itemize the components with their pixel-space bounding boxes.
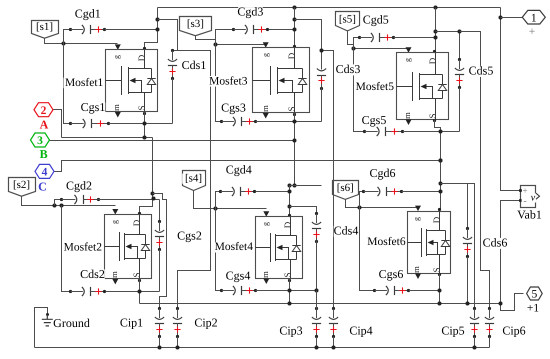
port dot S2 xyxy=(138,279,141,282)
capacitor Cgd5 xyxy=(358,33,395,42)
capacitor Cip3 xyxy=(312,307,321,338)
node Cip2 ground xyxy=(176,346,180,350)
wire Cds4 top link xyxy=(290,207,317,214)
wire gate entry arrow Mosfet2 xyxy=(112,209,118,215)
wire gate entry arrow Mosfet6 xyxy=(415,206,421,212)
wire S3 down to phase B link xyxy=(294,113,296,186)
label Mosfet2 xyxy=(62,242,102,254)
label Cgs3 xyxy=(221,101,246,115)
label Cds5 xyxy=(469,64,494,78)
wire S5 to phase C xyxy=(435,120,441,161)
node gate net 6 xyxy=(358,206,362,210)
svg-text:Mosfet6: Mosfet6 xyxy=(367,236,406,248)
from tag [s1] xyxy=(32,21,59,39)
wire port B feed xyxy=(50,140,295,142)
wire Cip6 to ground rail xyxy=(489,337,491,348)
node drain bus 2 b xyxy=(152,197,156,201)
wire Cgd5 left branch xyxy=(354,38,360,49)
wire Cgd6 left branch xyxy=(360,192,364,208)
svg-text:Mosfet1: Mosfet1 xyxy=(65,77,104,89)
wire Cds6 bottom xyxy=(467,257,469,304)
capacitor Cds3 xyxy=(317,49,326,90)
wire Cip4 to ground rail xyxy=(333,337,335,348)
node S1 on A rail xyxy=(143,136,147,140)
svg-text:Cgs2: Cgs2 xyxy=(177,229,202,243)
node drain bus 2 a xyxy=(151,192,155,196)
wire Cip5 to ground rail xyxy=(474,337,476,348)
svg-text:[s1]: [s1] xyxy=(36,21,53,33)
svg-text:g: g xyxy=(261,222,270,226)
wire gate entry arrow Mosfet3 xyxy=(263,42,269,48)
label A xyxy=(40,117,49,131)
from tag [s6] xyxy=(333,181,359,200)
port dot S3 xyxy=(293,113,296,116)
node Cds5 link xyxy=(458,30,462,34)
label Mosfet1 xyxy=(64,77,104,89)
wire drain bus 5 xyxy=(435,8,437,52)
node Cds4 Cip3 junction xyxy=(315,289,319,293)
label port1 plus xyxy=(528,26,535,38)
port dot S1 xyxy=(143,112,146,115)
wire Cgd2 left branch xyxy=(55,200,62,206)
label Cgd3 xyxy=(237,5,263,19)
wire Cip2 riser from +DC xyxy=(178,20,211,309)
node drain bus 3 a xyxy=(293,18,297,22)
wire ground feed xyxy=(35,308,48,348)
wire Cip5 riser from phase C net xyxy=(441,184,475,309)
wire phase B link xyxy=(290,185,322,187)
node gate net 1 xyxy=(62,42,66,46)
wire m6 unconnected arrow xyxy=(415,274,421,280)
mosfet U4 Mosfet4 xyxy=(256,217,303,279)
node drain bus 6 a xyxy=(439,182,443,186)
node S3 source h xyxy=(293,120,297,124)
mosfet U2 Mosfet2 xyxy=(105,215,152,279)
wire drain bus 4 xyxy=(289,186,291,216)
wire Cgs2 bottom to source xyxy=(159,250,161,292)
wire s3 gate xyxy=(196,36,266,45)
label Cip1 xyxy=(119,316,144,330)
node drain bus 4 b xyxy=(288,205,292,209)
svg-text:Ground: Ground xyxy=(53,316,90,330)
wire Cip4 riser from +DC xyxy=(322,51,334,309)
label B xyxy=(40,147,48,161)
wire S1 to phase A xyxy=(144,112,146,138)
wire S2 to negative bus xyxy=(139,279,141,304)
node S2 source h xyxy=(138,290,142,294)
label Cgs1 xyxy=(81,100,106,114)
label Cip6 xyxy=(502,324,527,338)
wire m4 unconnected arrow xyxy=(263,279,269,285)
svg-text:Cgd5: Cgd5 xyxy=(363,13,389,27)
svg-text:[s6]: [s6] xyxy=(337,182,354,194)
svg-text:Vab1: Vab1 xyxy=(517,208,542,222)
node Cds6 on neg bus xyxy=(466,302,470,306)
label Cip2 xyxy=(194,316,219,330)
wire source node 3 xyxy=(256,121,322,123)
wire Cgd3 left branch xyxy=(216,30,234,45)
wire source node 5 xyxy=(403,131,460,133)
capacitor Cds4 xyxy=(312,212,321,243)
wire Cip1 to ground rail xyxy=(159,337,161,348)
port 1 positive DC xyxy=(522,10,545,24)
port dot D5 xyxy=(433,50,436,53)
node S4 source h xyxy=(288,289,292,293)
label Cds2 xyxy=(80,267,105,281)
node drain bus 6 top xyxy=(439,159,443,163)
wire drain bus 1 xyxy=(145,8,158,49)
label Cgs6 xyxy=(379,267,404,281)
label Cds4 xyxy=(334,224,359,238)
svg-text:Mosfet4: Mosfet4 xyxy=(215,241,254,253)
label Cgs4 xyxy=(226,269,251,283)
port 2 phase A hexagon xyxy=(34,103,53,117)
svg-text:+: + xyxy=(529,26,536,38)
node S6 on neg bus xyxy=(438,302,442,306)
svg-text:m: m xyxy=(260,271,270,278)
wire Cgs6 to source xyxy=(409,290,440,292)
capacitor Cgd1 xyxy=(69,25,106,34)
wire m2 unconnected arrow xyxy=(112,279,118,285)
port dot S5 xyxy=(433,119,436,122)
svg-text:[s3]: [s3] xyxy=(187,18,204,30)
node negative bus at Vab branch xyxy=(499,302,503,306)
wire gate entry arrow Mosfet5 xyxy=(406,47,412,53)
port dot D2 xyxy=(138,212,141,215)
label Cip3 xyxy=(279,324,304,338)
capacitor Cds2 xyxy=(69,287,106,296)
svg-text:5: 5 xyxy=(532,289,538,301)
node Cip4 riser top xyxy=(320,49,324,53)
node drain bus 6 b xyxy=(439,190,443,194)
wire ground rail xyxy=(35,347,490,349)
svg-text:v: v xyxy=(531,193,536,204)
port dot D3 xyxy=(293,45,296,48)
node Cip4 ground xyxy=(332,346,336,350)
label Mosfet5 xyxy=(354,81,394,93)
wire Cds2 to source node xyxy=(106,291,160,293)
wire S6 to negative bus xyxy=(439,274,441,304)
svg-text:4: 4 xyxy=(42,167,48,179)
svg-text:m: m xyxy=(402,112,412,119)
svg-text:Mosfet3: Mosfet3 xyxy=(209,75,248,87)
wire to port 1 xyxy=(501,17,523,19)
wire Cgd4 to drain bus xyxy=(256,191,290,193)
wire negative bus rail xyxy=(140,303,501,305)
svg-text:+1: +1 xyxy=(527,303,539,315)
label Cgd5 xyxy=(363,13,389,27)
wire gate-source branch 6 xyxy=(360,208,375,291)
capacitor Cgd2 xyxy=(60,195,100,204)
capacitor Cds5 xyxy=(455,58,464,89)
svg-text:Cgs4: Cgs4 xyxy=(226,269,251,283)
node bus4 at B link xyxy=(288,184,292,188)
node drain bus 5 a xyxy=(434,30,438,34)
svg-text:3: 3 xyxy=(37,135,43,147)
wire m5 unconnected arrow xyxy=(406,120,412,126)
port dot S6 xyxy=(438,273,441,276)
wire Cds3 bottom xyxy=(321,88,323,122)
capacitor Cip5 xyxy=(470,307,479,338)
node S6 source h xyxy=(438,289,442,293)
wire top +DC rail xyxy=(158,7,501,9)
svg-text:Mosfet2: Mosfet2 xyxy=(64,242,103,254)
wire Cds1 bottom xyxy=(172,79,174,124)
capacitor Cip4 xyxy=(329,307,338,338)
svg-text:m: m xyxy=(411,266,421,273)
node drain bus 3 b xyxy=(293,28,297,32)
capacitor Cgs2 xyxy=(155,220,164,251)
label Mosfet4 xyxy=(213,241,253,253)
label Cds6 xyxy=(483,236,508,250)
wire s4 gate xyxy=(194,191,267,209)
wire Cds3 top link xyxy=(295,20,322,51)
svg-text:Cds4: Cds4 xyxy=(334,224,359,238)
capacitor Cip2 xyxy=(173,307,182,338)
voltmeter Vab1 xyxy=(519,186,540,208)
port 4 phase C hexagon xyxy=(35,164,54,178)
mosfet U6 Mosfet6 xyxy=(408,212,451,274)
svg-text:B: B xyxy=(40,147,48,161)
svg-text:+: + xyxy=(522,186,527,196)
svg-text:Mosfet5: Mosfet5 xyxy=(356,81,395,93)
node Cip1 ground xyxy=(158,346,162,350)
node S5 on C rail xyxy=(439,159,443,163)
label Ground xyxy=(53,316,90,330)
wire S4 to negative bus xyxy=(289,279,291,304)
wire gate entry arrow Mosfet1 xyxy=(115,44,121,50)
label Cip4 xyxy=(349,324,374,338)
wire Cds6 top link xyxy=(441,184,468,229)
wire Cgs2 top feed xyxy=(159,200,161,222)
svg-text:g: g xyxy=(110,220,119,224)
wire gate-source branch 1 xyxy=(64,44,71,124)
capacitor Cds6 xyxy=(463,227,472,258)
svg-text:Cds6: Cds6 xyxy=(483,236,508,250)
capacitor Cds1 xyxy=(168,49,177,80)
wire Cip3 to ground rail xyxy=(316,337,318,348)
capacitor Cgs3 xyxy=(220,117,257,126)
port dot D1 xyxy=(143,47,146,50)
node drain bus 1 b xyxy=(156,28,160,32)
node top rail cell5 xyxy=(434,6,438,10)
capacitor Cgd3 xyxy=(232,25,269,34)
wire s2 gate xyxy=(22,197,116,206)
wire m3 unconnected arrow xyxy=(263,113,269,119)
wire Cgd1 left branch xyxy=(64,30,71,44)
wire Cgd2 to drain bus xyxy=(98,199,160,201)
wire drain bus 6 xyxy=(440,161,442,210)
svg-text:g: g xyxy=(112,55,121,59)
wire Cgd3 to drain bus xyxy=(269,29,295,31)
node gate net 2 xyxy=(53,204,57,208)
svg-text:Cds2: Cds2 xyxy=(80,267,105,281)
wire Cds4 bottom xyxy=(316,241,318,291)
label Vab1 xyxy=(517,208,542,222)
wire Cgd1 to drain bus xyxy=(105,29,158,31)
wire drain bus 3 xyxy=(294,8,296,47)
from tag [s2] xyxy=(9,178,36,197)
svg-text:m: m xyxy=(111,104,121,111)
capacitor Cgs5 xyxy=(363,127,404,136)
wire gate-source branch 4 xyxy=(216,209,222,291)
wire phase A rail xyxy=(62,137,153,139)
svg-text:Cip4: Cip4 xyxy=(349,324,372,338)
svg-text:Cgd3: Cgd3 xyxy=(237,5,263,19)
port 3 phase B hexagon xyxy=(31,133,50,147)
svg-text:Cgs3: Cgs3 xyxy=(221,101,246,115)
label Cds1 xyxy=(182,58,207,72)
node drain bus 4 a xyxy=(288,190,292,194)
from tag [s3] xyxy=(180,17,212,36)
wire s6 gate xyxy=(346,200,419,208)
svg-text:Cds1: Cds1 xyxy=(182,58,207,72)
svg-text:Cip1: Cip1 xyxy=(120,316,143,330)
port dot D6 xyxy=(438,208,441,211)
from tag [s4] xyxy=(182,171,205,191)
svg-text:Cgd2: Cgd2 xyxy=(66,178,92,192)
svg-text:Cgs6: Cgs6 xyxy=(379,267,404,281)
label Cgd4 xyxy=(226,163,252,177)
wire Cgd4 left branch xyxy=(216,192,221,209)
wire port A feed xyxy=(52,110,62,138)
svg-text:A: A xyxy=(40,117,49,131)
svg-text:Cgs1: Cgs1 xyxy=(81,100,106,114)
svg-text:m: m xyxy=(260,105,270,112)
svg-text:Cgs5: Cgs5 xyxy=(362,113,387,127)
node gate net 3 xyxy=(214,43,218,47)
svg-text:Cip5: Cip5 xyxy=(441,324,464,338)
capacitor Cgs1 xyxy=(69,119,110,128)
svg-text:[s2]: [s2] xyxy=(13,179,30,191)
mosfet U5 Mosfet5 xyxy=(397,53,449,120)
svg-text:Cip3: Cip3 xyxy=(279,324,302,338)
wire Cds2 left riser xyxy=(62,206,71,292)
capacitor Cip6 xyxy=(485,307,494,338)
wire Cip2 to ground rail xyxy=(177,337,179,348)
wire A link to Cip1 xyxy=(153,194,167,309)
label C xyxy=(38,180,47,194)
svg-text:C: C xyxy=(38,180,47,194)
label Mosfet6 xyxy=(366,236,406,248)
mosfet U1 Mosfet1 xyxy=(106,50,158,112)
capacitor Cgd4 xyxy=(219,187,256,196)
wire gate-source branch 3 xyxy=(216,45,222,122)
node Cip3 ground xyxy=(315,346,319,350)
wire Cgd5 to drain bus xyxy=(394,37,435,39)
label Cgd1 xyxy=(75,6,101,20)
wire m1 unconnected arrow xyxy=(115,112,121,118)
svg-text:Cgd1: Cgd1 xyxy=(75,6,101,20)
svg-text:Cip6: Cip6 xyxy=(502,324,525,338)
label Cip5 xyxy=(441,324,466,338)
node gate net 4 xyxy=(214,207,218,211)
svg-text:-: - xyxy=(523,196,526,207)
capacitor Cgs6 xyxy=(373,286,410,295)
svg-text:m: m xyxy=(109,271,119,278)
svg-text:Cgd4: Cgd4 xyxy=(226,163,252,177)
label Cgd2 xyxy=(66,178,92,192)
label Cgd6 xyxy=(369,166,395,180)
label port5 +1 xyxy=(527,303,540,315)
svg-text:g: g xyxy=(261,53,270,57)
from tag [s5] xyxy=(336,12,360,31)
node S3 at B link xyxy=(293,184,297,188)
wire s5 gate xyxy=(348,31,409,49)
wire Cds1 top link xyxy=(158,20,178,51)
wire Cds5 bottom xyxy=(459,88,461,132)
node Cip5 ground xyxy=(473,346,477,350)
wire gate-source branch 5 xyxy=(354,49,365,132)
wire Cip6 riser from +DC xyxy=(460,32,490,309)
svg-text:Cip2: Cip2 xyxy=(194,316,217,330)
label Cds3 xyxy=(336,62,361,76)
node drain bus 1 a xyxy=(156,18,160,22)
svg-text:g: g xyxy=(412,217,421,221)
wire source node 1 xyxy=(109,123,173,125)
capacitor Cgd6 xyxy=(362,187,403,196)
wire drain bus 2 xyxy=(140,138,153,214)
svg-text:Cds3: Cds3 xyxy=(336,62,361,76)
svg-text:[s4]: [s4] xyxy=(185,173,202,185)
label Cgs2 xyxy=(177,229,202,243)
node top rail cell3 xyxy=(293,6,297,10)
wire Cip3 feed xyxy=(316,291,318,309)
wire source node 4 xyxy=(256,290,317,292)
svg-text:2: 2 xyxy=(41,105,47,117)
label Mosfet3 xyxy=(208,75,248,87)
wire +DC bus down to port 1 and Vab1 + xyxy=(501,8,521,191)
node drain bus 5 b xyxy=(434,36,438,40)
node S1 source h xyxy=(143,122,147,126)
svg-text:g: g xyxy=(403,58,412,62)
wire Vab1 - to negative bus xyxy=(501,201,524,311)
svg-text:[s5]: [s5] xyxy=(339,13,356,25)
node Cds2 riser top xyxy=(60,204,64,208)
ground G1 xyxy=(42,313,53,326)
capacitor Cip1 xyxy=(155,307,164,338)
port dot D4 xyxy=(288,214,291,217)
node B wire at S3 xyxy=(293,139,297,143)
capacitor Cgs4 xyxy=(220,286,257,295)
svg-text:1: 1 xyxy=(531,12,537,24)
port dot S4 xyxy=(288,279,291,282)
wire gate entry arrow Mosfet4 xyxy=(263,211,269,217)
mosfet U3 Mosfet3 xyxy=(253,48,310,113)
node S4 on neg bus xyxy=(288,302,292,306)
node S5 source h xyxy=(439,130,443,134)
wire Cds5 top link xyxy=(436,32,460,60)
svg-text:Cgd6: Cgd6 xyxy=(369,166,395,180)
label Cgs5 xyxy=(362,113,387,127)
svg-text:Cds5: Cds5 xyxy=(469,64,494,78)
wire Cgd6 to drain bus xyxy=(402,191,440,193)
wire s1 gate xyxy=(45,39,118,44)
wire phase C rail xyxy=(55,161,441,172)
node +DC to port1 junction xyxy=(499,16,503,20)
node gate net 5 xyxy=(352,47,356,51)
port 5 negative xyxy=(527,287,543,301)
